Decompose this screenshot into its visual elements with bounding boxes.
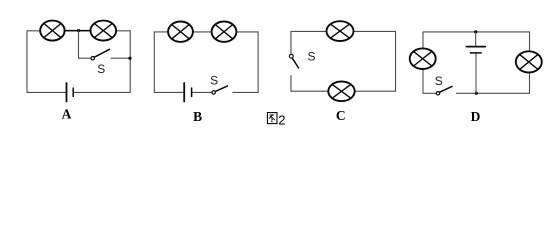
wire: D top conductor: [423, 31, 530, 33]
svg-text:S: S: [435, 74, 443, 88]
wire: D left branch upper: [422, 32, 424, 49]
svg-text:D: D: [471, 109, 481, 124]
wire: B right conductor: [257, 32, 259, 93]
wire: D right branch lower: [529, 72, 531, 93]
wire: A switch to right conductor: [111, 57, 130, 59]
svg-text:S: S: [210, 73, 218, 87]
node: D bottom junction: [475, 92, 478, 95]
wire: D left branch lower (lamp to switch corner): [422, 69, 424, 94]
wire: D switch corner stub to pivot: [423, 92, 436, 94]
wire: A bottom right segment from battery: [73, 91, 130, 93]
wire: C left conductor lower segment: [290, 76, 292, 92]
switch S (circuit C) pivot: [289, 54, 293, 58]
wire: D battery branch lower: [475, 53, 477, 93]
node: junction between A-L1 and A-L2: [77, 29, 80, 32]
svg-text:A: A: [62, 107, 72, 122]
wire: D bottom conductor from switch to right: [457, 92, 530, 94]
wire: A switch branch stub to pivot: [79, 57, 92, 59]
switch S (circuit D) blade: [440, 86, 452, 92]
figure caption 图2: [267, 112, 285, 127]
wire: B left conductor: [153, 32, 155, 93]
svg-text:B: B: [193, 109, 202, 124]
wire: C bottom conductor: [291, 90, 396, 92]
switch S (circuit B) blade: [215, 86, 227, 92]
switch S (circuit C) blade: [293, 59, 299, 68]
node: D top junction: [474, 30, 477, 33]
svg-text:S: S: [97, 62, 105, 76]
switch S (circuit A) pivot: [91, 57, 94, 60]
lamp B-L2: [212, 22, 237, 42]
lamp D-L1 (left): [410, 48, 436, 69]
wire: A black conductor between L1 and L2: [63, 30, 92, 32]
wire: B bottom left segment to battery: [154, 91, 184, 93]
switch S (circuit A) blade: [94, 49, 109, 57]
wire: B battery to switch pivot: [192, 91, 212, 93]
wire: C left conductor upper segment: [290, 31, 292, 54]
wire: B top conductor: [154, 31, 258, 33]
battery (circuit B) short plate: [191, 88, 193, 96]
wire: A bottom left segment to battery: [27, 91, 67, 93]
wire: A top conductor: [27, 30, 130, 32]
lamp D-L2 (right): [516, 51, 542, 72]
lamp A-L1: [40, 21, 64, 41]
wire: A left conductor: [26, 31, 28, 93]
wire: C right conductor: [395, 31, 397, 91]
wire: C top conductor: [291, 30, 396, 32]
battery (circuit A) short plate: [72, 88, 74, 96]
wire: B switch to right conductor: [233, 91, 258, 93]
wire: A switch branch vertical drop: [78, 31, 80, 59]
svg-text:C: C: [336, 108, 346, 123]
lamp C-L1 (top): [327, 21, 354, 41]
node: junction of switch branch on A right conductor: [128, 57, 131, 60]
svg-text:S: S: [307, 49, 315, 63]
battery (circuit B) long plate: [183, 83, 185, 102]
wire: A right conductor: [129, 31, 131, 93]
svg-text:2: 2: [278, 112, 285, 127]
wire: D battery branch upper: [475, 32, 477, 47]
wire: D right branch upper: [529, 32, 531, 52]
battery (circuit D) short plate: [470, 52, 481, 54]
battery (circuit A) long plate: [66, 83, 68, 102]
lamp B-L1: [168, 22, 193, 42]
switch S (circuit D) pivot: [436, 92, 439, 95]
lamp C-L2 (bottom): [328, 82, 354, 102]
hand-drawn CJK glyph 图: [267, 113, 277, 124]
switch S (circuit B) pivot: [212, 91, 215, 94]
lamp A-L2: [91, 21, 117, 41]
battery (circuit D) long plate: [466, 46, 485, 48]
